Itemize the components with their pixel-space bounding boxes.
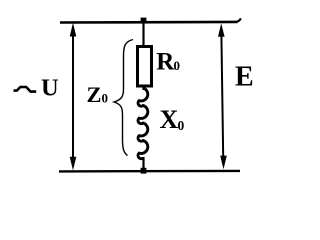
- svg-text:U: U: [41, 75, 59, 102]
- svg-text:Z: Z: [87, 82, 102, 107]
- svg-text:0: 0: [178, 118, 185, 133]
- svg-text:E: E: [235, 62, 254, 93]
- svg-text:0: 0: [102, 91, 109, 106]
- svg-text:0: 0: [174, 58, 181, 73]
- svg-text:R: R: [156, 49, 175, 76]
- svg-text:X: X: [160, 105, 179, 134]
